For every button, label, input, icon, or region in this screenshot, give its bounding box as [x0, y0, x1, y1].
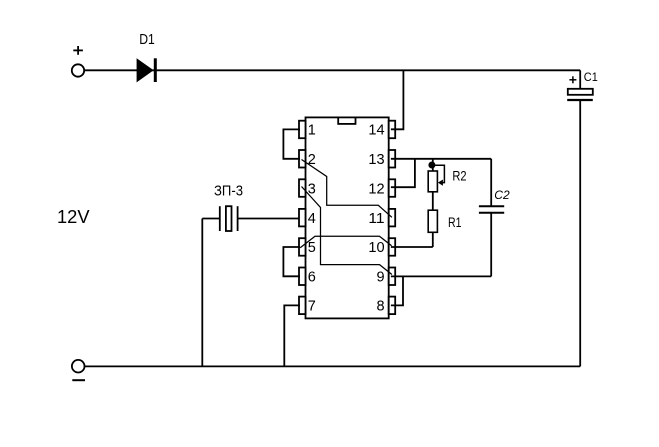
svg-text:C1: C1 [584, 70, 598, 84]
svg-text:10: 10 [368, 240, 384, 256]
svg-text:13: 13 [368, 152, 384, 168]
svg-text:3: 3 [308, 181, 316, 197]
svg-text:C2: C2 [494, 188, 510, 202]
svg-text:8: 8 [377, 299, 385, 315]
svg-text:9: 9 [377, 270, 385, 286]
svg-text:12: 12 [368, 181, 384, 197]
svg-text:2: 2 [308, 152, 316, 168]
svg-text:R1: R1 [448, 214, 462, 230]
svg-text:4: 4 [308, 211, 316, 227]
svg-text:1: 1 [308, 123, 316, 139]
svg-text:12V: 12V [57, 206, 90, 227]
svg-text:D1: D1 [139, 32, 155, 48]
svg-text:ЗП-3: ЗП-3 [214, 184, 243, 200]
svg-text:5: 5 [308, 240, 316, 256]
svg-text:7: 7 [308, 299, 316, 315]
svg-text:R2: R2 [452, 168, 466, 184]
svg-text:14: 14 [368, 123, 384, 139]
svg-text:6: 6 [308, 270, 316, 286]
svg-text:11: 11 [368, 211, 384, 227]
